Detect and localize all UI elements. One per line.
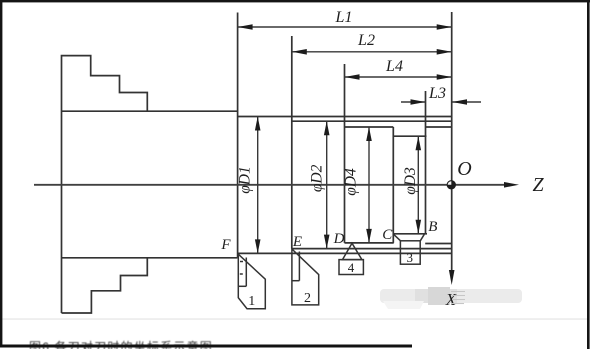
svg-text:L3: L3	[428, 85, 446, 102]
svg-text:φD2: φD2	[309, 164, 326, 192]
svg-text:E: E	[292, 234, 302, 250]
svg-text:4: 4	[348, 260, 355, 275]
svg-text:D: D	[333, 231, 345, 247]
svg-text:φD3: φD3	[402, 167, 419, 195]
svg-text:L2: L2	[357, 32, 375, 49]
svg-text:C: C	[382, 227, 393, 243]
svg-text:F: F	[220, 237, 231, 253]
svg-text:3: 3	[406, 250, 413, 265]
svg-text:O: O	[457, 158, 471, 180]
svg-text:B: B	[428, 219, 437, 235]
svg-text:2: 2	[304, 291, 311, 306]
svg-text:1: 1	[248, 294, 255, 309]
svg-text:L4: L4	[385, 58, 403, 75]
svg-text:Z: Z	[532, 174, 544, 196]
svg-text:L1: L1	[335, 9, 353, 26]
svg-text:φD4: φD4	[343, 168, 360, 196]
svg-text:φD1: φD1	[237, 166, 254, 194]
